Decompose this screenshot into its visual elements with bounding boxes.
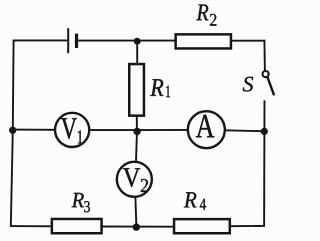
node top (R1 branch) bbox=[134, 38, 141, 45]
label V1-1 bbox=[78, 130, 82, 143]
wire top-right segment bbox=[231, 40, 265, 42]
voltmeter V2 bbox=[117, 162, 152, 197]
label V1-V bbox=[61, 118, 77, 139]
voltmeter V1 bbox=[55, 113, 89, 147]
battery cell long plate bbox=[67, 28, 69, 53]
wire middle right (A to right node) bbox=[225, 129, 263, 132]
label A bbox=[196, 115, 214, 137]
node right (middle wire) bbox=[261, 128, 268, 135]
label R4-4 bbox=[200, 199, 206, 210]
switch S blade bbox=[267, 77, 274, 95]
label R2-2 bbox=[210, 14, 216, 26]
label R4-R bbox=[184, 192, 197, 207]
wire middle left (node to V1) bbox=[13, 129, 55, 131]
wire bottom-left segment bbox=[10, 225, 53, 227]
wire V2 bottom lead bbox=[135, 198, 136, 228]
label V2-V bbox=[123, 168, 140, 187]
wire top-mid segment bbox=[78, 40, 177, 42]
wire right upper (corner to switch) bbox=[263, 40, 266, 71]
ammeter A bbox=[188, 111, 225, 148]
battery cell short thick plate bbox=[75, 34, 78, 48]
resistor R1 bbox=[129, 64, 144, 116]
label S bbox=[243, 77, 253, 92]
label R1-R bbox=[150, 79, 163, 96]
node bottom (V2 branch) bbox=[133, 223, 140, 230]
wire bottom-mid segment bbox=[101, 226, 174, 228]
wire middle center (V1 to A) bbox=[90, 129, 187, 131]
label R2-R bbox=[196, 4, 208, 20]
switch S circle bbox=[263, 71, 269, 77]
node left (middle wire) bbox=[9, 127, 16, 134]
node middle junction bbox=[133, 128, 140, 135]
wire left side bbox=[11, 40, 14, 227]
resistor R2 bbox=[176, 34, 231, 48]
resistor R4 bbox=[174, 219, 230, 233]
wire bottom-right segment bbox=[230, 225, 265, 227]
wire R1 bottom lead bbox=[136, 116, 138, 131]
label R3-3 bbox=[84, 201, 90, 212]
wire right lower (switch to bottom corner) bbox=[263, 100, 265, 226]
wire R1 top lead bbox=[136, 41, 138, 65]
label V2-2 bbox=[141, 179, 148, 192]
wire V2 top lead bbox=[136, 131, 137, 161]
label R1-1 bbox=[166, 86, 170, 98]
label R3-R bbox=[72, 193, 84, 207]
resistor R3 bbox=[52, 219, 102, 233]
wire top-left segment bbox=[13, 39, 68, 41]
